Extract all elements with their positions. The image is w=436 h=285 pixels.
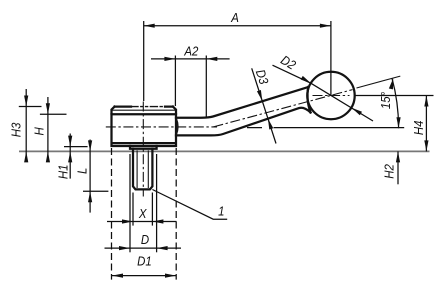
cap chamfer under-line [113,109,176,111]
svg-text:D1: D1 [137,254,152,269]
centerline ball horizontal [313,95,350,97]
dim X [107,221,177,223]
dim A [144,25,331,27]
dim D1 [112,275,176,277]
H [46,103,50,114]
ball-neck junction curve [307,87,310,112]
D1 inside arrows [112,274,123,278]
D2 arrows at circle [301,76,313,85]
centerline arm axis 15deg [213,90,352,127]
hub body [112,114,177,146]
arm top edge [176,87,308,118]
dim H2 [397,151,399,184]
H1 [68,136,72,147]
A2 outside arrows [164,57,175,61]
svg-text:15°: 15° [378,92,393,109]
ball knob circle [307,72,354,119]
mounting surface line [19,150,430,152]
collar under hub [130,146,157,149]
hub cap top edge phantom middle [131,106,165,108]
horizontal reference leg of 15deg angle [247,127,404,129]
15deg arc arrows [389,78,395,90]
leader 1 [152,190,227,220]
arm bottom edge [176,108,311,136]
dim H1 [64,146,88,148]
hub cap top edge solid ends [115,105,173,107]
svg-text:H2: H2 [382,164,397,179]
dim H3 [19,106,42,108]
svg-text:A: A [230,10,239,25]
dim D3 line across arm [252,68,276,143]
dim H4 [356,95,434,97]
H3 [24,96,28,107]
svg-text:L: L [75,168,90,174]
threaded stud outline [133,149,152,190]
dim D [105,247,182,249]
svg-text:H3: H3 [9,123,24,138]
centerline hub/stud vertical [142,102,144,197]
dim D2 leader under label [273,65,311,83]
thread root lines [137,150,148,188]
H2 [396,151,400,162]
hub-arm fillet [176,118,178,135]
angle reference leg beyond ball [357,76,401,88]
svg-text:H1: H1 [56,164,71,179]
X [122,219,133,223]
H4 [424,96,428,107]
svg-text:1: 1 [218,204,224,219]
D [119,246,130,250]
hub cap (lifted position) sides and chamfers [112,107,177,114]
dim 15deg arc [392,78,399,128]
A inside arrows [144,24,155,28]
svg-text:D: D [141,232,149,247]
svg-text:H4: H4 [411,120,426,135]
svg-text:A2: A2 [183,44,198,59]
svg-text:X: X [138,206,147,221]
dim L [83,190,108,192]
dim H [40,113,67,115]
D3 arrows at arm edges [257,90,264,102]
svg-text:H: H [32,127,47,135]
L [88,140,92,151]
dim D2 diameter line through ball [311,83,373,121]
dim A2 [151,58,230,60]
centerline hub horizontal axis [106,126,217,128]
